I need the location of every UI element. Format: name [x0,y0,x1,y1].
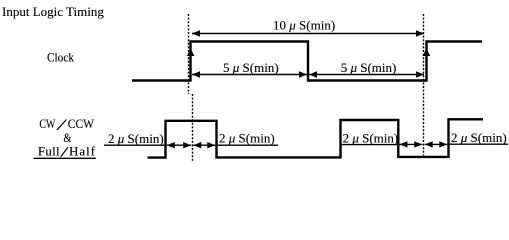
leader line for first 2uS label [104,144,164,146]
data signal name label Full/Half underlined [34,144,96,159]
leader line for third 2uS label [342,144,398,146]
clock waveform trace [132,42,482,81]
svg-text:2 μ S(min): 2 μ S(min) [343,130,399,145]
data signal name label CW/CCW [39,116,94,131]
svg-text:Input Logic Timing: Input Logic Timing [2,4,104,19]
svg-text:2 μ S(min): 2 μ S(min) [108,131,164,146]
dotted reference line at second clock rising edge (full height) [423,14,425,156]
svg-text:10 μ S(min): 10 μ S(min) [273,18,335,33]
rising-edge arrowhead on second clock edge [423,49,431,57]
dimension arrow setup time before clock edge (inside pulse 1 left) [167,142,191,148]
dimension arrow hold time after clock edge (inside pulse 1 right) [193,142,215,148]
dotted reference line at first data pulse center (bottom) [192,94,194,162]
svg-text:CW: CW [39,116,56,131]
rising-edge arrowhead on first clock edge [187,49,195,57]
svg-text:2 μ S(min): 2 μ S(min) [219,130,275,145]
dimension line 5uS(min) clock low time [309,71,424,77]
svg-text:5 μ S(min): 5 μ S(min) [341,60,397,75]
svg-text:2 μ S(min): 2 μ S(min) [451,130,507,145]
svg-text:CCW: CCW [68,116,95,131]
svg-text:Half: Half [69,144,96,159]
dimension line 10uS(min) between clock rising edges [192,30,424,36]
leader line for second 2uS label [218,144,278,146]
dotted reference line at first clock rising edge (top) [188,14,190,94]
dimension arrow setup time before second clock edge (low region left) [399,141,422,147]
dimension line 5uS(min) clock high time [192,71,307,77]
svg-text:Full: Full [38,144,60,159]
svg-text:5 μ S(min): 5 μ S(min) [223,60,279,75]
dimension arrow hold time after second clock edge (low region right) [425,141,448,147]
svg-text:Clock: Clock [47,50,74,65]
data waveform trace CW/CCW [148,119,484,157]
leader line for fourth 2uS label [450,143,508,145]
